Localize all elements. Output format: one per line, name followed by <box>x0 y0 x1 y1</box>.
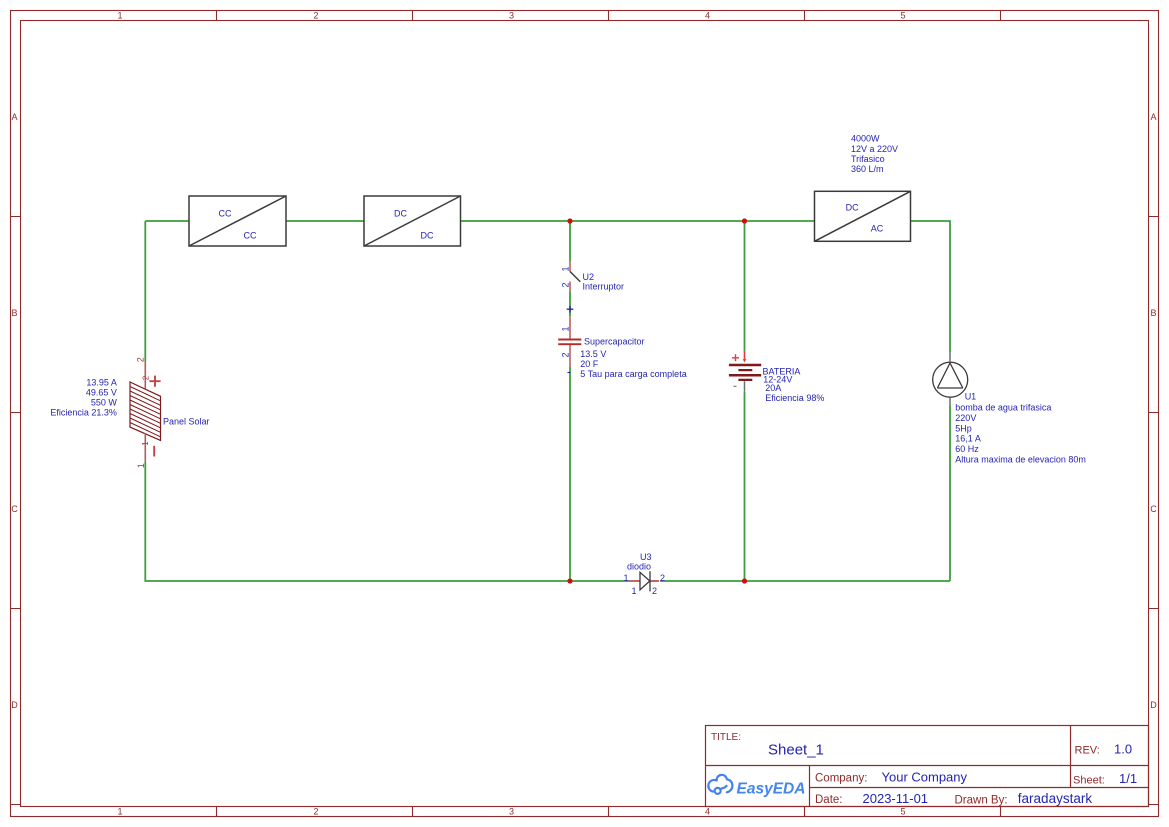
svg-text:1: 1 <box>560 326 570 331</box>
svg-text:1: 1 <box>632 586 637 596</box>
svg-text:A: A <box>11 112 17 122</box>
svg-text:13.95 A: 13.95 A <box>86 377 117 387</box>
svg-text:2: 2 <box>313 11 318 21</box>
svg-text:Sheet_1: Sheet_1 <box>768 742 824 759</box>
svg-text:3: 3 <box>509 807 514 817</box>
svg-text:C: C <box>1150 504 1157 514</box>
svg-text:2: 2 <box>142 375 151 380</box>
svg-text:Trifasico: Trifasico <box>851 154 885 164</box>
svg-text:Your Company: Your Company <box>882 769 968 784</box>
svg-text:49.65 V: 49.65 V <box>86 388 117 398</box>
svg-text:1/1: 1/1 <box>1119 771 1137 786</box>
svg-text:AC: AC <box>871 224 884 234</box>
svg-text:REV:: REV: <box>1075 744 1100 756</box>
svg-text:1: 1 <box>117 807 122 817</box>
svg-text:5: 5 <box>900 807 905 817</box>
svg-text:2: 2 <box>652 586 657 596</box>
svg-text:2: 2 <box>136 357 146 362</box>
svg-text:2: 2 <box>313 807 318 817</box>
svg-text:13.5 V: 13.5 V <box>580 349 606 359</box>
svg-text:220V: 220V <box>955 413 976 423</box>
svg-text:TITLE:: TITLE: <box>711 732 741 743</box>
svg-text:4000W: 4000W <box>851 134 880 144</box>
svg-text:faradaystark: faradaystark <box>1018 791 1093 806</box>
svg-text:Date:: Date: <box>815 794 843 806</box>
svg-text:Drawn By:: Drawn By: <box>955 795 1008 807</box>
svg-text:4: 4 <box>705 807 710 817</box>
svg-text:5 Tau para carga completa: 5 Tau para carga completa <box>580 369 686 379</box>
svg-text:CC: CC <box>219 208 232 218</box>
svg-text:Eficiencia 98%: Eficiencia 98% <box>765 393 824 403</box>
svg-text:2023-11-01: 2023-11-01 <box>863 791 929 806</box>
svg-text:D: D <box>11 700 18 710</box>
svg-text:Supercapacitor: Supercapacitor <box>584 336 645 346</box>
svg-text:60 Hz: 60 Hz <box>955 444 979 454</box>
svg-text:2: 2 <box>660 573 665 583</box>
svg-text:1: 1 <box>624 573 629 583</box>
svg-text:3: 3 <box>509 11 514 21</box>
svg-text:360 L/m: 360 L/m <box>851 164 884 174</box>
svg-text:20A: 20A <box>765 383 781 393</box>
svg-text:EasyEDA: EasyEDA <box>737 781 806 798</box>
svg-text:Eficiencia 21.3%: Eficiencia 21.3% <box>50 408 117 418</box>
svg-text:4: 4 <box>705 11 710 21</box>
svg-text:16,1 A: 16,1 A <box>955 434 981 444</box>
svg-text:550 W: 550 W <box>91 398 118 408</box>
svg-text:B: B <box>11 308 17 318</box>
svg-text:2: 2 <box>560 352 570 357</box>
svg-text:1.0: 1.0 <box>1114 741 1132 756</box>
svg-text:2: 2 <box>560 282 570 287</box>
svg-text:20 F: 20 F <box>580 359 599 369</box>
svg-text:DC: DC <box>846 203 859 213</box>
svg-text:B: B <box>1150 308 1156 318</box>
svg-text:U1: U1 <box>965 392 977 402</box>
svg-text:5: 5 <box>900 11 905 21</box>
svg-text:U2: U2 <box>583 272 595 282</box>
svg-text:A: A <box>1150 112 1156 122</box>
svg-text:DC: DC <box>421 230 434 240</box>
svg-text:C: C <box>11 504 18 514</box>
svg-text:CC: CC <box>244 230 257 240</box>
svg-text:Panel Solar: Panel Solar <box>163 416 210 426</box>
svg-text:Company:: Company: <box>815 773 867 785</box>
svg-text:1: 1 <box>141 441 150 446</box>
svg-text:1: 1 <box>117 11 122 21</box>
svg-text:diodio: diodio <box>627 561 651 571</box>
svg-text:12V a 220V: 12V a 220V <box>851 144 898 154</box>
svg-text:DC: DC <box>394 208 407 218</box>
svg-text:1: 1 <box>560 266 570 271</box>
svg-text:D: D <box>1150 700 1157 710</box>
svg-text:5Hp: 5Hp <box>955 423 972 433</box>
svg-text:bomba de agua trifasica: bomba de agua trifasica <box>955 403 1051 413</box>
svg-text:Altura maxima de elevacion 80m: Altura maxima de elevacion 80m <box>955 455 1086 465</box>
svg-text:Sheet:: Sheet: <box>1073 775 1105 787</box>
svg-text:Interruptor: Interruptor <box>583 282 625 292</box>
svg-text:1: 1 <box>136 463 146 468</box>
